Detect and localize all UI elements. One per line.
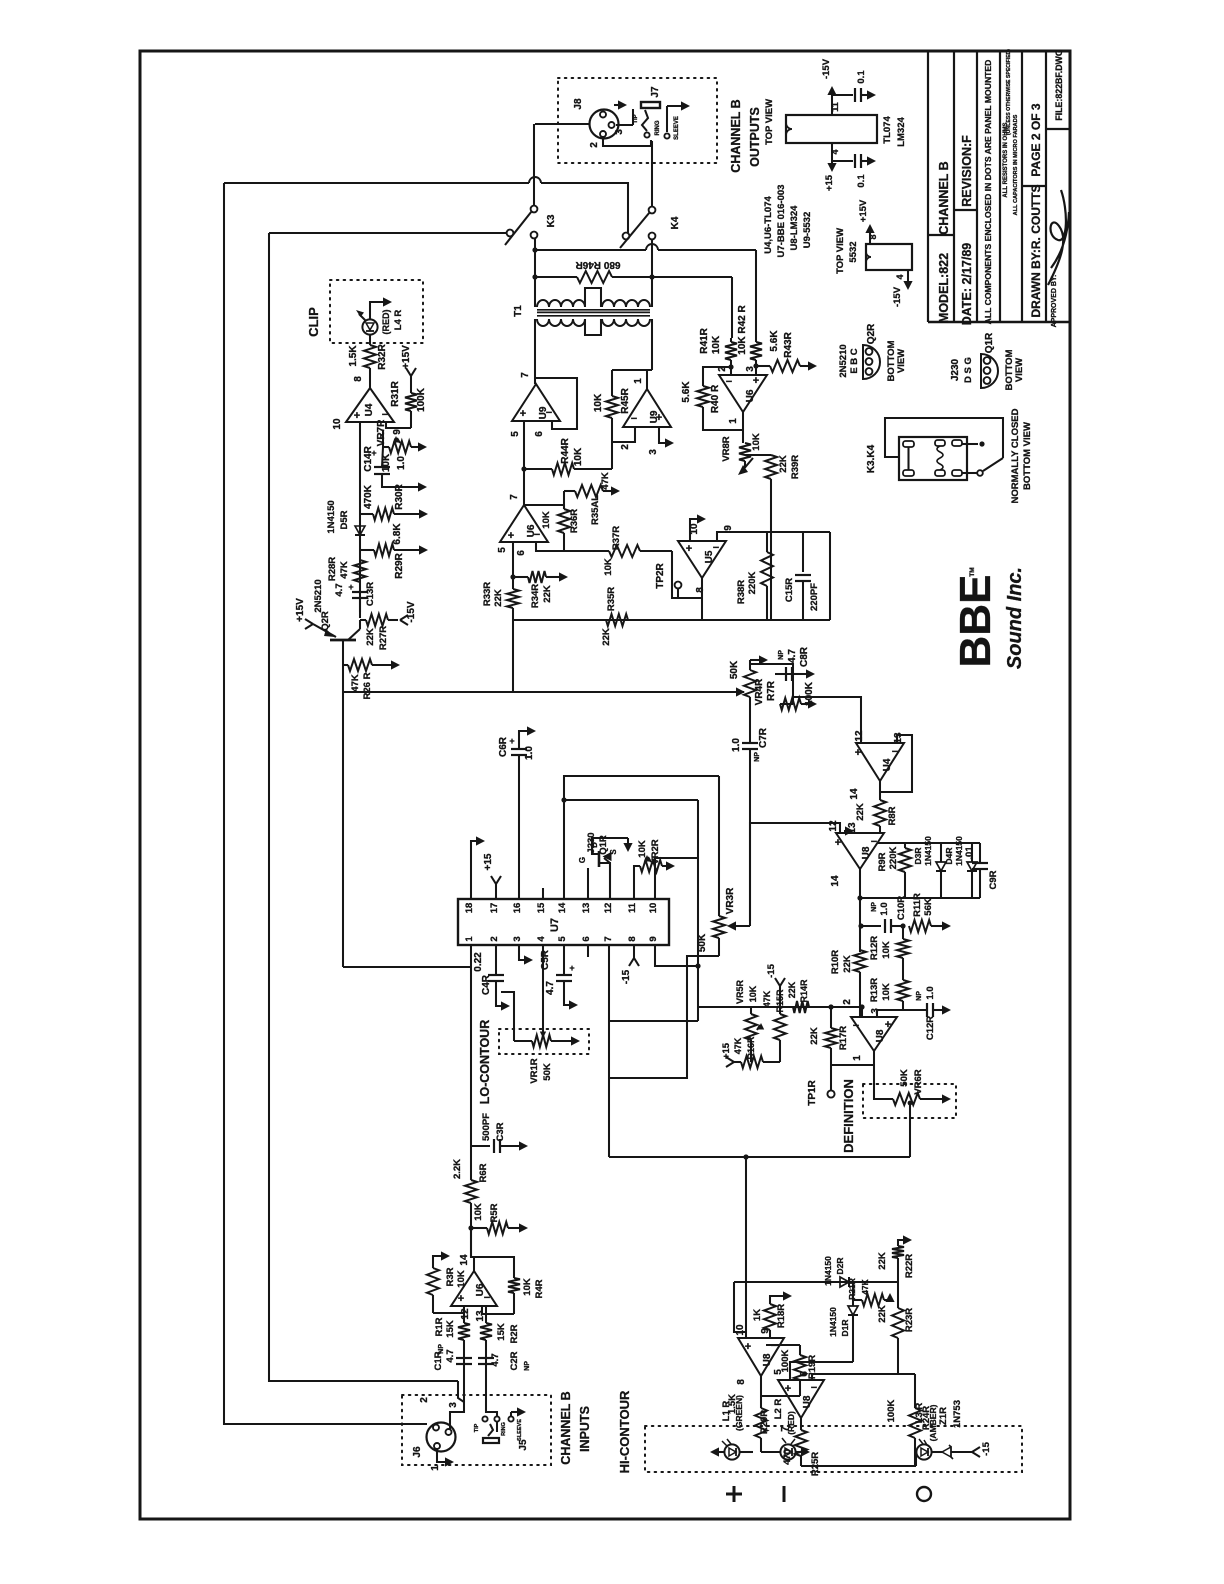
svg-text:K4: K4 xyxy=(670,216,681,229)
resistor R1R 15K xyxy=(463,1340,465,1357)
resistor R42R 10K xyxy=(755,338,757,342)
svg-text:10K: 10K xyxy=(573,447,584,466)
op-amp U8 comparator a xyxy=(738,1338,784,1376)
U7 pin12 wire xyxy=(609,863,611,899)
resistor R28R 47K xyxy=(354,560,366,582)
svg-text:NP: NP xyxy=(754,752,761,762)
svg-text:11: 11 xyxy=(830,102,840,112)
svg-text:7: 7 xyxy=(603,936,614,941)
svg-text:+15: +15 xyxy=(483,853,494,870)
U6a - input rail xyxy=(536,542,609,551)
svg-text:APPROVED BY:: APPROVED BY: xyxy=(1051,275,1058,328)
svg-text:U4: U4 xyxy=(364,403,375,416)
U7 pin11 to VR2R xyxy=(634,866,640,899)
svg-text:22K: 22K xyxy=(601,628,612,646)
capacitor C10R branch xyxy=(861,925,881,927)
svg-text:ALL COMPONENTS ENCLOSED IN DOT: ALL COMPONENTS ENCLOSED IN DOTS ARE PANE… xyxy=(983,60,993,325)
U9b - input xyxy=(612,427,635,442)
wire J8 pin2 to J7 ring xyxy=(603,138,651,147)
svg-text:+15V: +15V xyxy=(295,598,306,622)
svg-text:100K: 100K xyxy=(416,387,427,412)
svg-text:1.0: 1.0 xyxy=(396,456,407,470)
svg-text:17: 17 xyxy=(489,903,500,914)
svg-text:−: − xyxy=(382,409,388,421)
U7 pin8 -15 xyxy=(633,945,635,958)
svg-text:50K: 50K xyxy=(542,1063,553,1081)
svg-text:HI-CONTOUR: HI-CONTOUR xyxy=(617,1390,632,1473)
LED L4R xyxy=(362,319,377,334)
svg-text:47K: 47K xyxy=(762,990,772,1007)
pot VR8R 10K xyxy=(739,443,751,461)
svg-text:C13R: C13R xyxy=(365,582,376,606)
svg-text:2.2K: 2.2K xyxy=(452,1159,463,1179)
LED L1R green xyxy=(740,1451,753,1453)
L4R top wire xyxy=(370,302,386,320)
emitter node down xyxy=(342,640,344,967)
wire feedback A xyxy=(224,182,529,184)
svg-text:1N4150: 1N4150 xyxy=(326,500,337,533)
svg-text:9: 9 xyxy=(392,429,403,435)
svg-text:L2 R: L2 R xyxy=(773,1399,784,1420)
resistor R29R 6.8K xyxy=(360,549,374,551)
svg-text:J8: J8 xyxy=(573,98,584,110)
svg-text:Q2R: Q2R xyxy=(320,611,331,631)
svg-text:5: 5 xyxy=(557,936,568,942)
svg-text:CHANNEL B: CHANNEL B xyxy=(729,99,743,172)
svg-text:SLEEVE: SLEEVE xyxy=(517,1419,523,1441)
svg-text:FILE:822BF.DWG: FILE:822BF.DWG xyxy=(1054,49,1064,121)
svg-text:Q1R: Q1R xyxy=(984,332,995,353)
svg-text:Q1R: Q1R xyxy=(598,835,609,855)
svg-text:3: 3 xyxy=(648,449,659,455)
svg-text:2N5210: 2N5210 xyxy=(838,344,849,377)
pot VR1R 50K xyxy=(501,992,514,1041)
svg-text:1: 1 xyxy=(852,1055,863,1061)
svg-text:100K: 100K xyxy=(886,1400,897,1423)
svg-text:1.0: 1.0 xyxy=(879,902,890,915)
resistor R21R 47K xyxy=(853,1299,862,1301)
resistor R37R 10K xyxy=(609,545,640,557)
svg-text:R4R: R4R xyxy=(534,1279,545,1298)
relay outer wire xyxy=(885,418,1003,458)
capacitor C9R .01 xyxy=(979,843,981,862)
svg-text:11: 11 xyxy=(627,902,638,913)
svg-text:−: − xyxy=(853,1020,859,1032)
svg-text:500PF: 500PF xyxy=(481,1113,492,1141)
svg-text:1N4150: 1N4150 xyxy=(923,836,933,866)
wire def rail to comparator xyxy=(745,1157,747,1332)
svg-text:VIEW: VIEW xyxy=(896,349,907,373)
svg-text:3: 3 xyxy=(512,936,523,941)
svg-text:R7R: R7R xyxy=(766,680,777,701)
resistor R45R 10K xyxy=(611,370,613,396)
svg-text:NP: NP xyxy=(524,1361,531,1371)
svg-text:−: − xyxy=(534,529,540,541)
svg-text:R14R: R14R xyxy=(799,979,809,1003)
svg-text:C3R: C3R xyxy=(495,1122,506,1141)
svg-text:6: 6 xyxy=(516,550,527,556)
svg-text:VR1R: VR1R xyxy=(529,1058,540,1083)
svg-text:1.5K: 1.5K xyxy=(348,345,359,367)
svg-text:−: − xyxy=(713,542,719,554)
svg-text:1.0: 1.0 xyxy=(524,746,535,760)
svg-text:8: 8 xyxy=(736,1379,747,1385)
feedback right vert xyxy=(829,532,831,620)
svg-text:+15: +15 xyxy=(721,1042,732,1059)
svg-text:+: + xyxy=(656,412,662,424)
svg-text:U8: U8 xyxy=(762,1353,773,1366)
svg-text:D4R: D4R xyxy=(944,847,954,864)
svg-text:C15R: C15R xyxy=(784,578,795,602)
svg-text:R33R: R33R xyxy=(482,582,493,606)
svg-text:R10R: R10R xyxy=(830,950,841,974)
svg-text:RING: RING xyxy=(501,1422,507,1436)
wire to J8 pin3 xyxy=(535,123,589,125)
svg-text:22K: 22K xyxy=(855,803,866,821)
loop link to pin7 wire xyxy=(610,1020,698,1022)
svg-text:J7: J7 xyxy=(650,86,661,98)
op-amp U4 mid xyxy=(856,743,904,781)
test point TP2R xyxy=(675,582,682,589)
svg-text:R1R: R1R xyxy=(434,1317,445,1336)
svg-text:R30R: R30R xyxy=(394,483,405,509)
VR6R wiper wire xyxy=(909,1103,911,1157)
resistor R7R 100K xyxy=(792,674,794,704)
pot VR5R 10K xyxy=(750,1007,752,1014)
svg-text:R39R: R39R xyxy=(790,455,801,479)
svg-text:18: 18 xyxy=(464,903,475,914)
svg-text:470K: 470K xyxy=(363,484,374,509)
svg-text:2: 2 xyxy=(419,1397,430,1403)
U6a plus chain to rail 692 xyxy=(512,620,514,692)
svg-text:47K: 47K xyxy=(350,674,361,692)
svg-text:R8R: R8R xyxy=(887,806,898,825)
svg-text:−: − xyxy=(871,836,877,848)
svg-text:13: 13 xyxy=(475,1310,486,1322)
svg-text:1N4150: 1N4150 xyxy=(828,1307,838,1337)
resistor R4R 10K xyxy=(482,1306,514,1314)
svg-text:D5R: D5R xyxy=(339,510,350,529)
svg-text:22K: 22K xyxy=(877,1252,888,1270)
svg-text:G: G xyxy=(578,857,587,863)
diode D3R 1N4150 xyxy=(940,843,942,862)
svg-text:R23R: R23R xyxy=(904,1308,915,1332)
TL074 cap 0.1 lower xyxy=(832,160,853,162)
svg-text:+: + xyxy=(371,448,376,458)
svg-text:R20R: R20R xyxy=(759,1410,770,1434)
svg-text:U4,U6-TL074: U4,U6-TL074 xyxy=(763,196,774,254)
relay contacts xyxy=(962,443,978,445)
svg-text:R6R: R6R xyxy=(478,1163,489,1182)
svg-text:NP: NP xyxy=(778,650,785,660)
wire rail 692 to VR4R xyxy=(343,691,744,693)
IC 5532 top view xyxy=(866,244,912,270)
U8 mid pin12 wire xyxy=(750,823,840,921)
svg-text:+: + xyxy=(745,1341,751,1353)
svg-text:22K: 22K xyxy=(842,955,853,973)
svg-text:10: 10 xyxy=(332,418,343,430)
resistor R43R 5.6K xyxy=(756,365,770,367)
svg-text:C9R: C9R xyxy=(988,870,999,889)
DEFINITION dotted box xyxy=(863,1084,956,1118)
polarity marks xyxy=(726,1493,742,1496)
svg-text:U8: U8 xyxy=(861,846,872,859)
svg-text:14: 14 xyxy=(830,875,841,887)
resistor R32R 1.5K xyxy=(369,335,371,346)
diode D1R 1N4150 xyxy=(852,1282,854,1306)
resistor R19R 100K xyxy=(766,1344,800,1346)
xfmr secondary left lead xyxy=(534,319,536,384)
resistor R16R 47K xyxy=(726,1057,734,1062)
svg-text:4.7: 4.7 xyxy=(334,583,345,596)
svg-text:J6: J6 xyxy=(412,1446,423,1458)
capacitor C8R 4.7 NP xyxy=(775,673,784,675)
resistor R2R 15K xyxy=(485,1340,487,1357)
U7 pin4 to VR1R xyxy=(542,945,544,1037)
svg-text:U6: U6 xyxy=(745,389,756,402)
svg-text:D S G: D S G xyxy=(963,357,974,383)
svg-text:VR4R: VR4R xyxy=(754,678,765,705)
svg-text:U8: U8 xyxy=(802,1395,813,1408)
op-amp U8 mid xyxy=(836,833,884,869)
svg-text:2: 2 xyxy=(620,444,631,450)
svg-text:+: + xyxy=(569,963,574,973)
svg-text:CLIP: CLIP xyxy=(306,307,321,337)
svg-text:VR3R: VR3R xyxy=(725,887,736,914)
U7 pin3 arrow xyxy=(519,945,527,960)
svg-text:4: 4 xyxy=(830,149,840,154)
pot VR6R 50K xyxy=(893,1093,920,1105)
svg-text:LM324: LM324 xyxy=(896,117,907,147)
svg-text:+: + xyxy=(520,408,526,420)
svg-text:15K: 15K xyxy=(445,1320,456,1338)
definition rail xyxy=(609,1156,910,1158)
capacitor C12R NP 1.0 xyxy=(926,1003,928,1017)
transistor Q2R bottom view xyxy=(863,345,880,379)
capacitor C13R 4.7 xyxy=(352,591,368,593)
svg-text:47K: 47K xyxy=(860,1278,870,1294)
svg-text:5: 5 xyxy=(773,1369,784,1375)
svg-text:K3: K3 xyxy=(546,214,557,227)
svg-text:10K: 10K xyxy=(711,335,722,354)
wire K3 to J8 xyxy=(533,124,535,206)
svg-text:100K: 100K xyxy=(804,681,815,706)
input wire A corner xyxy=(224,183,427,1424)
svg-text:22K: 22K xyxy=(877,1305,888,1323)
svg-text:R36R: R36R xyxy=(569,509,580,533)
svg-text:C6R: C6R xyxy=(498,736,509,757)
svg-text:CHANNEL B: CHANNEL B xyxy=(559,1391,573,1464)
pin2 rail xyxy=(698,1006,751,1008)
svg-text:INPUTS: INPUTS xyxy=(578,1406,592,1452)
U8 bottom inputs xyxy=(861,1007,863,1017)
resistor R27R 22K xyxy=(360,619,366,621)
svg-text:BOTTOM VIEW: BOTTOM VIEW xyxy=(1022,422,1033,490)
xfmr secondary right lead xyxy=(651,319,653,370)
svg-text:22K: 22K xyxy=(809,1027,820,1045)
svg-text:C1R: C1R xyxy=(433,1351,444,1370)
pot VR3R 50K xyxy=(718,776,720,916)
svg-text:R28R: R28R xyxy=(327,557,338,581)
resistor R40R 5.6K xyxy=(703,367,731,386)
svg-text:TOP VIEW: TOP VIEW xyxy=(764,99,775,145)
U8b output R25R 470 xyxy=(800,1418,802,1430)
U7 pin14 loop to VR3R xyxy=(564,776,719,899)
op-amp U9b xyxy=(623,389,671,427)
TL074 pin11 -15V xyxy=(831,92,833,115)
border frame xyxy=(140,51,1070,1519)
svg-text:D3R: D3R xyxy=(913,847,923,864)
svg-text:R40 R: R40 R xyxy=(710,384,721,413)
transformer center tap xyxy=(585,288,601,307)
svg-text:+15: +15 xyxy=(824,174,835,191)
title block xyxy=(927,51,929,322)
svg-text:+: + xyxy=(458,1293,464,1305)
svg-text:10K: 10K xyxy=(541,511,552,529)
svg-text:J230: J230 xyxy=(586,832,597,853)
resistor R9R 220K xyxy=(904,843,906,848)
resistor R36R 10K xyxy=(563,505,565,509)
svg-text:22K: 22K xyxy=(365,628,376,646)
svg-text:TL074: TL074 xyxy=(882,116,893,144)
svg-text:NP: NP xyxy=(871,902,878,912)
svg-text:5.6K: 5.6K xyxy=(769,330,780,352)
svg-text:1: 1 xyxy=(430,1465,441,1471)
svg-text:5.6K: 5.6K xyxy=(681,381,692,403)
svg-text:1.0: 1.0 xyxy=(925,986,936,999)
svg-text:T1: T1 xyxy=(513,305,524,317)
svg-text:2: 2 xyxy=(842,999,853,1005)
U5 output xyxy=(701,578,703,620)
resistor R11R 56K xyxy=(909,920,931,932)
svg-text:+15V: +15V xyxy=(858,199,869,222)
svg-text:15: 15 xyxy=(536,902,547,913)
svg-text:220PF: 220PF xyxy=(809,583,820,611)
svg-text:Sound Inc.: Sound Inc. xyxy=(1004,567,1026,669)
svg-text:10: 10 xyxy=(648,903,659,914)
resistor R17R 22K xyxy=(830,1007,832,1028)
U7 pin7 long wire xyxy=(608,945,610,1157)
resistor R39R 22K xyxy=(745,454,771,456)
J7 ring spring contact xyxy=(642,110,648,131)
svg-text:C2R: C2R xyxy=(509,1351,520,1370)
svg-text:-15: -15 xyxy=(621,969,632,984)
svg-text:1N4150: 1N4150 xyxy=(954,836,964,866)
svg-text:TOP VIEW: TOP VIEW xyxy=(835,228,846,274)
svg-text:10K: 10K xyxy=(473,1203,484,1221)
svg-text:U7-BBE 016-003: U7-BBE 016-003 xyxy=(776,185,787,258)
svg-text:VR7R: VR7R xyxy=(376,419,387,446)
svg-text:TP2R: TP2R xyxy=(655,562,666,588)
U8b feedback R24R 100K xyxy=(812,1374,915,1380)
svg-text:(UNLESS OTHERWISE SPECIFIED): (UNLESS OTHERWISE SPECIFIED) xyxy=(1006,49,1012,135)
svg-text:R35AL: R35AL xyxy=(590,495,601,525)
svg-text:+: + xyxy=(686,543,692,555)
svg-text:-15: -15 xyxy=(766,963,777,977)
svg-text:4.7: 4.7 xyxy=(445,1349,456,1362)
relay switch K4 xyxy=(649,207,656,214)
svg-text:DRAWN BY:R. COUTTS: DRAWN BY:R. COUTTS xyxy=(1029,184,1043,317)
svg-text:10K: 10K xyxy=(603,558,614,576)
wire xfmr to U9b xyxy=(612,369,652,371)
svg-text:C5R: C5R xyxy=(540,949,551,970)
xfmr primary left lead xyxy=(534,238,536,307)
wire output to VR6R xyxy=(874,1065,893,1099)
svg-text:4.7: 4.7 xyxy=(545,981,556,995)
svg-text:C12R: C12R xyxy=(925,1016,936,1040)
resistor R22R 22K xyxy=(897,1258,899,1282)
svg-text:R3R: R3R xyxy=(445,1267,456,1286)
diode D5R 1N4150 xyxy=(355,526,365,535)
capacitor C2R 4.7 NP xyxy=(485,1357,487,1404)
resistor R41R 10K xyxy=(730,338,732,342)
D1R to pin5 xyxy=(790,1362,853,1380)
capacitor C6R 1.0 xyxy=(511,748,527,750)
resistor R38R 220K xyxy=(766,532,768,552)
svg-text:R38R: R38R xyxy=(736,580,747,604)
svg-text:BBE: BBE xyxy=(951,575,1000,668)
svg-text:C7R: C7R xyxy=(758,727,769,748)
svg-text:10: 10 xyxy=(735,1324,746,1336)
IC U7 BBE 016-003 xyxy=(458,899,669,945)
svg-text:7: 7 xyxy=(509,494,520,500)
svg-text:+15V: +15V xyxy=(401,345,412,369)
svg-text:.01: .01 xyxy=(964,846,975,860)
signature xyxy=(1048,190,1069,285)
output rail to L3R xyxy=(801,1465,916,1467)
svg-text:+: + xyxy=(753,375,759,387)
svg-text:RING: RING xyxy=(655,120,661,135)
svg-text:6: 6 xyxy=(534,431,545,437)
svg-text:Z1R: Z1R xyxy=(938,1407,949,1425)
CHANNEL B INPUTS dotted box xyxy=(402,1395,551,1465)
svg-text:22K: 22K xyxy=(787,981,797,998)
svg-text:5: 5 xyxy=(510,431,521,437)
svg-text:R13R: R13R xyxy=(869,978,880,1002)
U7 pin2 C4R xyxy=(495,945,497,974)
svg-text:DEFINITION: DEFINITION xyxy=(841,1079,856,1153)
LED L2R red xyxy=(761,1451,780,1453)
svg-text:VR6R: VR6R xyxy=(913,1069,924,1094)
svg-text:REVISION:F: REVISION:F xyxy=(960,135,974,207)
pot VR4R 50K xyxy=(749,660,751,670)
svg-text:R2R: R2R xyxy=(509,1324,520,1343)
resistor R3R 10K xyxy=(432,1295,434,1313)
relay K3 K4 bottom view xyxy=(899,437,967,480)
svg-text:47K: 47K xyxy=(339,561,350,579)
resistor R15R 47K xyxy=(775,978,780,986)
U6b output xyxy=(742,412,744,443)
U7 pin1 down xyxy=(470,945,472,1180)
resistor R6R 2.2K xyxy=(465,1180,477,1203)
svg-text:-15: -15 xyxy=(981,1441,992,1455)
svg-text:10K: 10K xyxy=(751,433,762,451)
svg-text:R26 R: R26 R xyxy=(362,672,373,699)
feedback rails xyxy=(878,842,980,844)
svg-text:U8-LM324: U8-LM324 xyxy=(789,205,800,251)
svg-text:R43R: R43R xyxy=(783,331,794,357)
5532 pin8 +15V xyxy=(869,230,871,244)
U7 pin6 stub xyxy=(587,945,589,957)
xfmr primary right lead xyxy=(651,240,653,308)
svg-text:7: 7 xyxy=(520,372,531,378)
svg-text:OUTPUTS: OUTPUTS xyxy=(748,107,762,167)
HI-CONTOUR dotted box xyxy=(645,1426,1022,1472)
svg-text:10K: 10K xyxy=(593,393,604,412)
diode D2R 1N4150 xyxy=(840,1277,849,1287)
svg-text:R21R: R21R xyxy=(847,1278,857,1300)
svg-text:R12R: R12R xyxy=(869,936,880,960)
